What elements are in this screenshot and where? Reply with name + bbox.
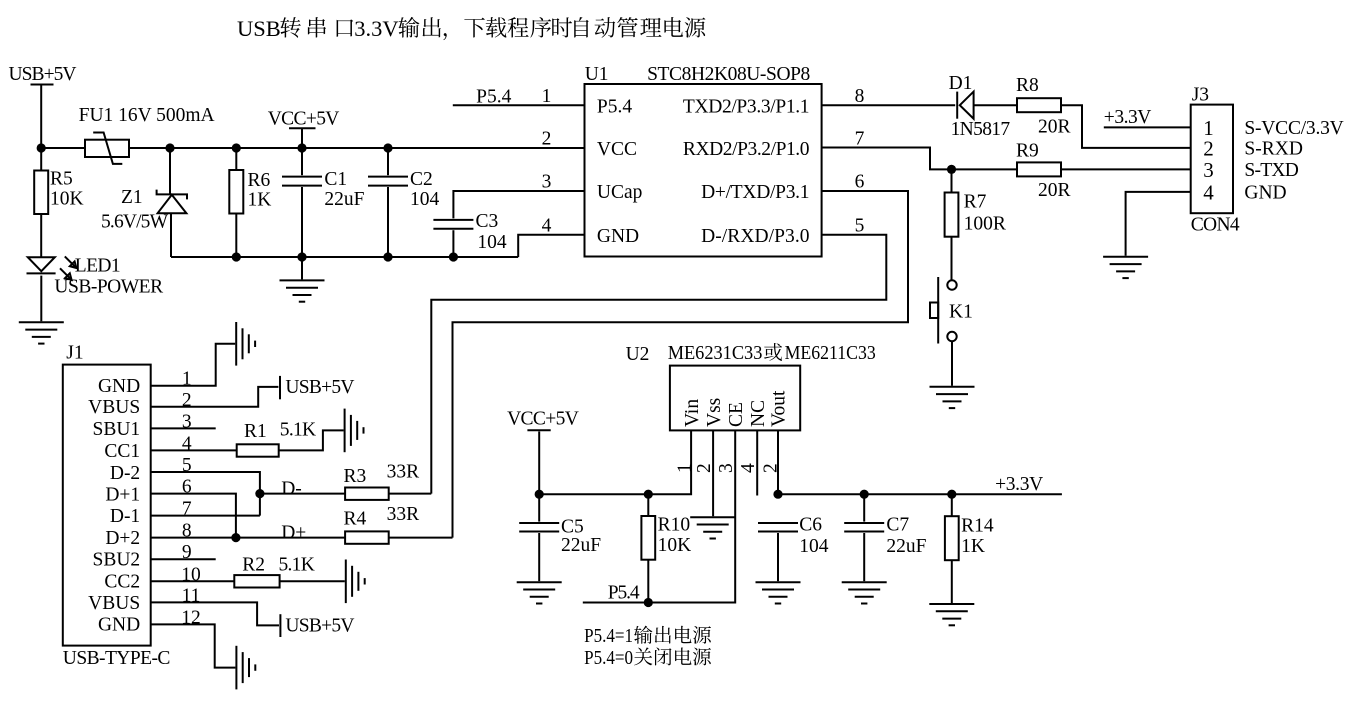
svg-text:USB: USB — [237, 16, 281, 41]
junction — [860, 490, 869, 499]
wire J1 pin8 (D+2) to R4 — [151, 537, 345, 539]
capacitor C3 — [433, 220, 473, 257]
svg-text:D1: D1 — [949, 73, 973, 94]
wire R3 right — [389, 493, 432, 495]
svg-text:10K: 10K — [658, 535, 692, 556]
junction — [947, 165, 956, 174]
ground (C5) — [517, 582, 562, 603]
resistor R9 — [1017, 162, 1061, 176]
svg-text:5.1K: 5.1K — [280, 420, 316, 441]
wire U2 Vout — [777, 430, 779, 494]
svg-text:S-RXD: S-RXD — [1244, 138, 1303, 159]
svg-text:3: 3 — [1203, 158, 1214, 182]
note P5.4=0 power off — [584, 647, 711, 669]
svg-text:D+1: D+1 — [105, 484, 140, 505]
connector J3 — [1191, 105, 1233, 214]
wire D- to R3 — [260, 493, 345, 495]
IC U2 — [670, 366, 800, 431]
wire R2 to ground — [280, 580, 345, 582]
resistor R6 — [229, 148, 243, 257]
svg-text:S-TXD: S-TXD — [1244, 160, 1298, 181]
label ME6231C33/ME6211C33 — [668, 343, 876, 364]
wire U2 NC stub — [756, 430, 758, 495]
wire R8 to J3 pin2 — [1061, 105, 1191, 148]
ground (C7) — [842, 582, 887, 603]
wire VCC+5V drop — [538, 432, 540, 495]
wire U1 pin8 — [822, 104, 956, 106]
svg-text:4: 4 — [542, 216, 552, 237]
connector J1 — [63, 365, 151, 646]
ground (K1) — [930, 387, 975, 408]
wire VCC rail left — [41, 147, 85, 149]
svg-text:GND: GND — [597, 226, 639, 247]
wire R9 to J3 pin3 — [1061, 168, 1191, 170]
wire U1 pin5 to D- — [431, 235, 886, 494]
wire J1 pin2 to USB+5V — [151, 387, 279, 407]
svg-text:+3.3V: +3.3V — [1104, 107, 1152, 128]
svg-text:VBUS: VBUS — [88, 593, 140, 614]
svg-text:SBU2: SBU2 — [93, 550, 141, 571]
capacitor C1 — [282, 148, 322, 257]
svg-text:D+2: D+2 — [105, 528, 140, 549]
svg-text:Vin: Vin — [682, 399, 703, 427]
svg-text:GND: GND — [98, 376, 140, 397]
junction — [773, 490, 782, 499]
wire J1 pin6 (D+1) — [151, 494, 236, 538]
svg-text:USB-POWER: USB-POWER — [54, 277, 163, 298]
svg-text:3.3V: 3.3V — [354, 16, 398, 41]
junction — [947, 490, 956, 499]
svg-text:FU1 16V 500mA: FU1 16V 500mA — [79, 105, 215, 126]
svg-text:5.1K: 5.1K — [279, 555, 315, 576]
junction — [232, 143, 241, 152]
ground (J1 pin1) — [236, 322, 255, 366]
svg-text:VCC+5V: VCC+5V — [507, 409, 579, 430]
ground (J1 pin12) — [236, 646, 255, 690]
junction — [383, 252, 392, 261]
wire J1 pin4 — [151, 449, 237, 451]
svg-text:22uF: 22uF — [561, 535, 601, 556]
svg-text:NC: NC — [748, 400, 769, 427]
ground (main rail) — [280, 257, 325, 302]
wire J1 pin1 to ground — [151, 344, 236, 386]
wire — [974, 104, 1017, 106]
svg-text:Vout: Vout — [769, 390, 790, 427]
svg-text:1K: 1K — [961, 536, 985, 557]
svg-text:+3.3V: +3.3V — [995, 474, 1043, 495]
svg-text:U2: U2 — [626, 344, 650, 365]
svg-text:10K: 10K — [50, 189, 84, 210]
wire J1 pin3 stub — [151, 427, 216, 429]
svg-text:LED1: LED1 — [75, 256, 121, 277]
ground (LED1) — [19, 322, 64, 343]
switch K1 — [930, 277, 957, 344]
junction — [644, 490, 653, 499]
svg-text:D-2: D-2 — [110, 463, 140, 484]
junction — [297, 252, 306, 261]
svg-text:RXD2/P3.2/P1.0: RXD2/P3.2/P1.0 — [683, 139, 810, 160]
svg-text:C6: C6 — [799, 515, 822, 536]
svg-text:1N5817: 1N5817 — [951, 119, 1011, 140]
net label USB+5V (input port) — [9, 64, 77, 85]
svg-text:7: 7 — [855, 129, 865, 150]
svg-text:GND: GND — [1244, 182, 1286, 203]
note P5.4=1 output power — [584, 626, 711, 648]
svg-text:20R: 20R — [1038, 180, 1071, 201]
svg-text:104: 104 — [799, 536, 829, 557]
svg-text:SBU1: SBU1 — [93, 419, 141, 440]
junction — [231, 533, 240, 542]
fuse FU1 — [85, 133, 129, 164]
wire — [301, 129, 303, 148]
svg-text:U1: U1 — [585, 64, 609, 85]
wire U2 CE to P5.4 — [583, 430, 735, 602]
svg-text:R6: R6 — [248, 170, 271, 191]
resistor R1 — [237, 444, 279, 456]
wire UCap to C3 — [453, 191, 584, 218]
svg-text:C2: C2 — [410, 169, 433, 190]
ground (R14) — [929, 604, 974, 625]
svg-text:C7: C7 — [886, 515, 909, 536]
wire J1 pin5 (D-2) — [151, 472, 260, 516]
junction — [255, 489, 264, 498]
svg-text:3: 3 — [542, 171, 552, 192]
svg-text:STC8H2K08U-SOP8: STC8H2K08U-SOP8 — [647, 64, 810, 85]
svg-text:33R: 33R — [387, 504, 420, 525]
junction — [383, 143, 392, 152]
svg-text:1: 1 — [675, 463, 696, 473]
svg-text:2: 2 — [694, 463, 715, 473]
resistor R2 — [234, 575, 279, 587]
wire R1 to ground — [279, 430, 344, 450]
capacitor C5 — [519, 494, 559, 581]
resistor R4 — [345, 531, 389, 543]
svg-text:D+/TXD/P3.1: D+/TXD/P3.1 — [701, 182, 809, 203]
svg-text:5.6V/5W: 5.6V/5W — [101, 212, 169, 233]
power flag USB+5V (pin11) — [280, 614, 354, 637]
svg-text:2: 2 — [542, 129, 552, 150]
svg-text:5: 5 — [855, 216, 865, 237]
svg-text:22uF: 22uF — [886, 536, 926, 557]
svg-text:R1: R1 — [244, 421, 267, 442]
wire U2 Vin to VCC rail — [539, 430, 691, 494]
resistor R14 — [945, 494, 959, 603]
resistor R10 — [641, 494, 655, 602]
svg-text:Z1: Z1 — [121, 187, 143, 208]
svg-text:R14: R14 — [961, 516, 994, 537]
svg-text:J1: J1 — [66, 343, 83, 364]
svg-text:1K: 1K — [248, 190, 272, 211]
svg-text:ME6211C33: ME6211C33 — [785, 343, 876, 364]
ground (R1) — [345, 409, 364, 453]
capacitor C7 — [844, 494, 884, 581]
net label VCC+5V — [268, 109, 340, 130]
wire ground rail — [171, 256, 518, 258]
svg-text:D-/RXD/P3.0: D-/RXD/P3.0 — [701, 226, 809, 247]
diode D1 — [957, 92, 973, 119]
svg-text:D-1: D-1 — [110, 506, 140, 527]
svg-text:USB+5V: USB+5V — [285, 616, 354, 637]
svg-text:VCC: VCC — [597, 139, 637, 160]
svg-text:ME6231C33: ME6231C33 — [668, 343, 763, 364]
svg-text:33R: 33R — [387, 462, 420, 483]
svg-text:R7: R7 — [964, 192, 987, 213]
svg-text:20R: 20R — [1038, 117, 1071, 138]
svg-text:K1: K1 — [949, 302, 973, 323]
junction — [644, 598, 653, 607]
wire U2 Vss to ground — [712, 430, 714, 516]
wire J1 pin10 — [151, 580, 235, 582]
svg-text:8: 8 — [855, 86, 865, 107]
junction — [37, 143, 46, 152]
svg-text:GND: GND — [98, 614, 140, 635]
wire U1 pin7 to R9 — [822, 148, 1017, 170]
svg-text:2: 2 — [1203, 136, 1214, 160]
svg-text:USB+5V: USB+5V — [285, 377, 354, 398]
junction — [297, 143, 306, 152]
svg-text:D+: D+ — [281, 522, 306, 543]
wire R4 right — [389, 537, 453, 539]
svg-text:CC2: CC2 — [104, 572, 140, 593]
wire J3 pin4 to ground — [1126, 192, 1191, 256]
svg-text:P5.4=0: P5.4=0 — [584, 648, 633, 669]
svg-text:VBUS: VBUS — [88, 397, 140, 418]
zener Z1 — [157, 148, 187, 257]
wire J1 pin7 (D-1) — [151, 515, 260, 517]
svg-text:R10: R10 — [658, 515, 691, 536]
svg-text:R5: R5 — [50, 169, 73, 190]
ground (R2) — [346, 560, 365, 604]
ground (J3) — [1103, 257, 1148, 278]
svg-text:1: 1 — [542, 86, 552, 107]
ground (C6) — [756, 582, 801, 603]
svg-text:R9: R9 — [1016, 141, 1039, 162]
wire J1 pin12 to ground — [151, 624, 236, 667]
svg-text:USB+5V: USB+5V — [9, 64, 77, 85]
junction — [449, 252, 458, 261]
capacitor C6 — [758, 523, 798, 581]
svg-text:6: 6 — [855, 171, 865, 192]
net label VCC+5V (U2) — [507, 409, 579, 431]
svg-text:R4: R4 — [344, 509, 367, 530]
svg-text:S-VCC/3.3V: S-VCC/3.3V — [1244, 118, 1343, 139]
capacitor C2 — [368, 148, 408, 257]
wire +3.3V rail — [778, 493, 1062, 495]
svg-text:CC1: CC1 — [104, 441, 140, 462]
resistor R5 — [34, 148, 48, 257]
svg-text:3: 3 — [716, 463, 737, 473]
svg-text:P5.4=1: P5.4=1 — [584, 626, 633, 647]
svg-text:P5.4: P5.4 — [608, 583, 640, 604]
junction — [232, 252, 241, 261]
wire U1 pin1 — [453, 104, 585, 106]
LED LED1 — [27, 256, 77, 321]
svg-text:R8: R8 — [1016, 75, 1039, 96]
junction — [165, 143, 174, 152]
svg-text:P5.4: P5.4 — [597, 96, 632, 117]
svg-text:R3: R3 — [344, 466, 367, 487]
svg-text:4: 4 — [738, 463, 759, 473]
svg-text:J3: J3 — [1192, 85, 1209, 106]
title — [237, 16, 705, 41]
wire J1 pin9 stub — [151, 558, 216, 560]
svg-text:C1: C1 — [324, 169, 347, 190]
wire J1 pin11 to USB+5V — [151, 602, 279, 625]
svg-text:R2: R2 — [242, 555, 265, 576]
power flag USB+5V (pin2) — [280, 376, 355, 399]
svg-text:VCC+5V: VCC+5V — [268, 109, 340, 130]
wire +3.3V to J3 pin1 — [1104, 126, 1191, 128]
svg-text:100R: 100R — [964, 214, 1006, 235]
ground (U2 Vss) — [690, 517, 735, 538]
svg-text:C3: C3 — [476, 211, 499, 232]
svg-text:CON4: CON4 — [1191, 215, 1240, 236]
IC U1 — [585, 84, 822, 257]
wire U1 pin4 to ground rail — [518, 235, 584, 257]
svg-text:104: 104 — [410, 189, 440, 210]
wire VCC rail to U1 pin2 — [129, 147, 585, 149]
junction — [535, 490, 544, 499]
svg-text:Vss: Vss — [704, 398, 725, 427]
svg-text:TXD2/P3.3/P1.1: TXD2/P3.3/P1.1 — [683, 96, 810, 117]
resistor R3 — [345, 488, 389, 500]
resistor R7 — [945, 169, 959, 280]
svg-text:USB-TYPE-C: USB-TYPE-C — [63, 648, 171, 669]
svg-text:4: 4 — [1203, 180, 1214, 204]
wire USB+5V drop — [40, 86, 42, 149]
svg-text:UCap: UCap — [597, 182, 643, 203]
resistor R8 — [1017, 98, 1061, 112]
svg-text:CE: CE — [726, 402, 747, 427]
wire U1 pin6 to D+ — [453, 191, 909, 538]
svg-text:104: 104 — [477, 232, 507, 253]
svg-text:22uF: 22uF — [324, 189, 364, 210]
wire K1 to ground — [951, 341, 953, 386]
svg-text:D-: D- — [281, 478, 302, 499]
